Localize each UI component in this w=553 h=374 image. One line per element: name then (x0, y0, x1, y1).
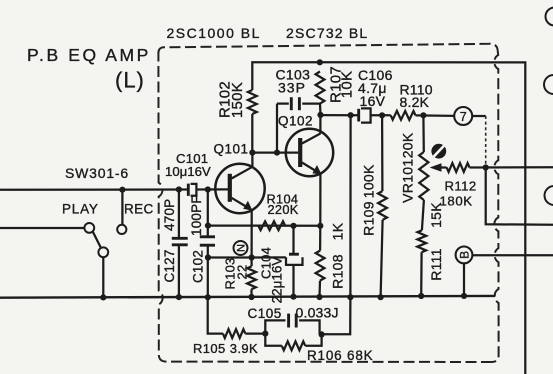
svg-text:R106 68K: R106 68K (307, 348, 373, 363)
svg-text:1K: 1K (330, 222, 346, 240)
svg-text:R108: R108 (330, 254, 346, 289)
svg-text:22μ16V: 22μ16V (270, 257, 285, 304)
svg-text:B: B (457, 251, 471, 259)
svg-text:VR101: VR101 (400, 159, 416, 203)
svg-text:PLAY: PLAY (62, 202, 99, 217)
svg-text:10K: 10K (339, 71, 356, 99)
svg-text:2SC732 BL: 2SC732 BL (286, 25, 368, 41)
svg-text:15K: 15K (428, 202, 444, 228)
svg-text:180K: 180K (440, 193, 473, 208)
svg-text:20K: 20K (400, 132, 416, 158)
svg-text:REC: REC (124, 202, 154, 217)
svg-text:N: N (236, 244, 248, 252)
svg-text:R109: R109 (361, 201, 377, 236)
svg-text:10μ16V: 10μ16V (165, 164, 211, 179)
svg-text:SW301-6: SW301-6 (65, 165, 129, 181)
svg-text:R112: R112 (445, 179, 477, 194)
svg-text:470P: 470P (162, 199, 177, 231)
svg-text:100PF: 100PF (189, 195, 204, 236)
svg-text:(L): (L) (115, 68, 145, 93)
svg-text:16V: 16V (360, 93, 386, 109)
svg-text:7: 7 (460, 110, 467, 124)
svg-text:22: 22 (235, 265, 250, 280)
svg-text:Q102: Q102 (278, 114, 313, 129)
svg-text:33P: 33P (278, 80, 306, 96)
svg-text:100K: 100K (361, 164, 377, 198)
svg-text:P.B EQ AMP: P.B EQ AMP (27, 45, 151, 65)
svg-text:C105: C105 (248, 306, 282, 321)
svg-text:C102: C102 (191, 250, 206, 283)
svg-text:Q101: Q101 (214, 142, 249, 157)
svg-text:150K: 150K (229, 82, 246, 118)
svg-text:0.033J: 0.033J (296, 304, 339, 320)
svg-text:R105 3.9K: R105 3.9K (193, 341, 258, 356)
svg-text:R111: R111 (428, 248, 444, 281)
svg-text:C127: C127 (162, 249, 177, 282)
svg-text:220K: 220K (268, 202, 299, 217)
svg-text:2SC1000 BL: 2SC1000 BL (167, 25, 261, 41)
svg-text:8.2K: 8.2K (400, 94, 430, 110)
